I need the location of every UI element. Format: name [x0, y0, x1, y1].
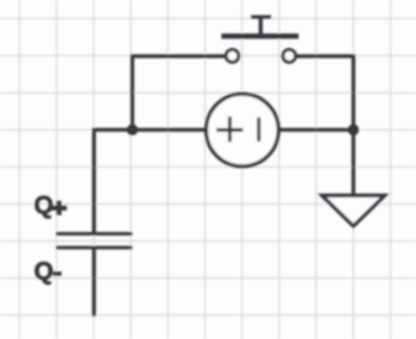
wire: node A up and right to switch left terminal: [132, 56, 232, 130]
pushbutton right contact: [283, 50, 296, 63]
wire: switch right terminal right and down to node B: [289, 56, 353, 130]
wire: node A to voltage source left terminal: [132, 128, 210, 132]
voltage source body: [206, 94, 278, 166]
voltage source V1: [206, 94, 278, 166]
wire: voltage source right terminal to node B: [275, 128, 353, 132]
wire: node A left and down to capacitor top plate: [94, 130, 132, 232]
pushbutton actuator bar: [221, 34, 298, 39]
wire: node B down to ground: [351, 130, 355, 196]
minus bar: [257, 117, 261, 141]
pushbutton stem: [259, 17, 263, 36]
pushbutton SW1: [221, 17, 298, 62]
node B junction dot: [348, 124, 359, 135]
ground: [322, 196, 385, 227]
label Q-: [35, 262, 61, 284]
label Q+: [35, 196, 66, 218]
capacitor C1 bottom plate: [56, 246, 132, 250]
wire: capacitor bottom plate down: [92, 248, 96, 317]
pushbutton cap: [251, 15, 271, 19]
plus sign: [217, 117, 244, 142]
node A junction dot: [127, 124, 138, 135]
pushbutton left contact: [226, 50, 239, 63]
capacitor C1 top plate: [56, 232, 132, 236]
